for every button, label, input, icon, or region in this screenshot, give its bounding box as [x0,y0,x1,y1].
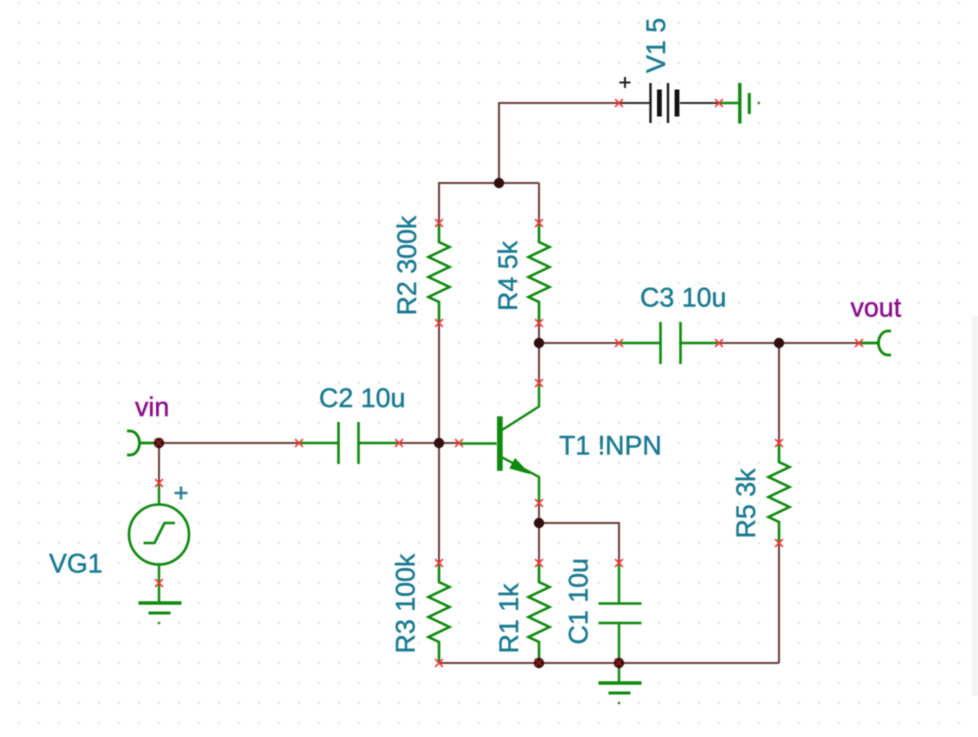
resistor R2 300k [429,223,450,323]
svg-text:C1 10u: C1 10u [564,558,594,644]
terminal vin [127,431,159,455]
node top tee [494,178,504,188]
VG1 waveform [144,523,176,543]
wire T1 emitter pin to emitter node [538,503,540,523]
wire emitter node down to R1 top [538,523,540,563]
wire vin node down to VG1 plus pin [158,443,160,483]
pin marks R2 [435,219,443,227]
wire vin node to C2 left pin [159,442,299,444]
VG1 bottom lead [158,565,160,604]
pin mark T1 collector [535,379,543,387]
node collector [534,338,544,348]
terminal vout [859,331,891,355]
T1 emitter arrow [509,458,530,474]
svg-text:vout: vout [851,293,902,323]
wire bottom rail [439,662,779,664]
wire C2 right pin to node A [399,442,439,444]
wire R4 top stub [538,183,540,223]
T1 emitter [502,457,539,503]
svg-text:R1 1k: R1 1k [494,583,524,654]
node vin [154,438,164,448]
svg-text:V1 5: V1 5 [641,18,671,73]
node vout [774,338,784,348]
ground right of battery [719,83,759,124]
node R1 bottom [534,658,544,668]
svg-text:VG1: VG1 [49,549,103,579]
wire node A to T1 base pin [439,442,459,444]
ground below VG1 [139,603,182,623]
battery V1 plates [649,83,651,123]
capacitor C3 10u [619,322,719,364]
pin mark vin node [155,439,163,447]
wire R5 bottom to bottom rail corner [778,543,780,663]
ground below C1 [599,663,642,703]
T1 base lead [459,442,497,444]
pin marks VG1 [155,479,163,487]
pin mark R1 bottom [535,659,543,667]
VG1 top lead [158,483,160,505]
svg-text:T1 !NPN: T1 !NPN [559,431,662,461]
node A (base node) [434,438,444,448]
pin mark R1 top [535,559,543,567]
wire vout node down to R5 top [778,343,780,443]
svg-text:C3 10u: C3 10u [640,283,726,313]
T1 base bar [497,416,503,471]
pin mark vout terminal [855,339,863,347]
VG1 circle [129,505,189,565]
capacitor C1 10u (vertical) [599,563,642,663]
svg-text:vin: vin [135,392,169,422]
svg-text:R4 5k: R4 5k [493,240,523,311]
pin marks R5 [775,439,783,447]
pin mark T1 emitter [535,499,543,507]
pin mark C1 bottom [615,659,623,667]
resistor R1 1k [529,563,550,663]
svg-text:R3 100k: R3 100k [391,553,421,653]
wire vout node to vout terminal pin [779,342,859,344]
wire R2 bottom through node A to R3 top [438,323,440,563]
wire R2 top to top tee [439,183,539,223]
wire collector node down to T1 collector pin [538,343,540,383]
capacitor C2 10u [299,422,399,464]
wire top tee up and right to battery V1 [499,103,619,183]
battery V1 leads [619,102,650,104]
resistor R4 5k [529,223,550,323]
pin marks on junction dots (dark red) [155,439,623,667]
pin marks C3 [615,339,623,347]
node emitter [534,518,544,528]
node C1 bottom [614,658,624,668]
pin marks R3 [435,559,443,567]
svg-text:R5 3k: R5 3k [731,468,761,539]
svg-text:C2 10u: C2 10u [319,383,405,413]
wire R4 bottom to collector node [538,323,540,343]
resistor R5 3k [769,443,790,543]
wire collector node to C3 left pin [539,342,619,344]
T1 collector [502,383,539,430]
battery plus sign [620,82,631,84]
pin marks battery V1 [615,99,623,107]
right edge panel strip [972,316,978,696]
pin mark C1 top [615,559,623,567]
wire C3 right pin to vout node [719,342,779,344]
pin marks R4 [535,219,543,227]
svg-text:R2 300k: R2 300k [392,215,422,315]
VG1 plus sign [175,492,188,495]
pin marks C2 [295,439,303,447]
resistor R3 100k [429,563,450,663]
pin mark T1 base [455,439,463,447]
wire emitter node right and down to C1 top [539,523,619,563]
